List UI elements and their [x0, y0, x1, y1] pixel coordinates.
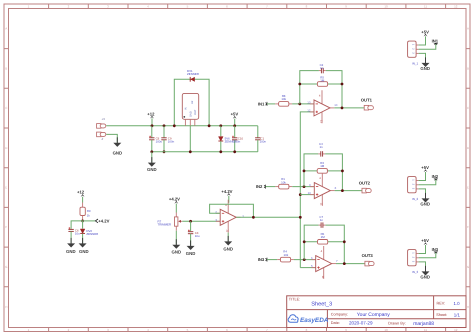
svg-text:10: 10 — [384, 5, 388, 9]
svg-text:marjan88: marjan88 — [413, 321, 434, 327]
svg-text:10k: 10k — [284, 253, 289, 257]
wire feedback loop stage 2 — [304, 154, 342, 191]
svg-text:GND: GND — [420, 66, 430, 71]
svg-text:1k: 1k — [87, 214, 91, 218]
svg-text:B: B — [5, 67, 7, 71]
svg-text:10u: 10u — [75, 232, 80, 236]
resistor R4 10k — [277, 259, 280, 261]
svg-text:10: 10 — [384, 328, 388, 332]
zener diode DV3 5V6 — [219, 124, 222, 127]
svg-text:E: E — [467, 186, 469, 190]
EasyEDA logo — [288, 315, 329, 324]
svg-text:1n: 1n — [320, 145, 324, 149]
wire feedback resistor branch stage 1 — [300, 83, 342, 85]
node +4.2V junction — [81, 220, 84, 223]
ground GND (conn3) — [422, 266, 430, 276]
svg-text:TITLE:: TITLE: — [289, 298, 300, 302]
svg-text:+4.2V: +4.2V — [98, 218, 109, 223]
svg-text:10: 10 — [308, 191, 312, 195]
wire node to C6 — [71, 221, 83, 229]
resistor R8 10k — [275, 103, 278, 105]
svg-text:E: E — [5, 186, 7, 190]
svg-text:13: 13 — [307, 100, 311, 104]
wire conn2 pin3 to GND — [419, 189, 426, 199]
svg-text:A: A — [467, 27, 469, 31]
connector J1 pin 1 — [97, 124, 106, 129]
svg-text:+5V: +5V — [421, 238, 429, 243]
svg-text:+12: +12 — [147, 111, 155, 116]
wire IN1 to R8 — [267, 103, 275, 105]
svg-text:+5V: +5V — [231, 112, 239, 117]
svg-text:IN_1: IN_1 — [412, 62, 419, 66]
capacitor C7 — [319, 222, 326, 227]
wire R1 to op-amp — [292, 186, 314, 188]
wire feedback resistor branch stage 2 — [304, 170, 342, 172]
zener diode DV2 — [82, 221, 84, 229]
svg-text:IN3: IN3 — [432, 247, 439, 252]
svg-text:Company:: Company: — [331, 313, 348, 317]
svg-text:+4.2V: +4.2V — [169, 197, 180, 202]
ground GND (C6) — [67, 238, 75, 248]
zener diode DV1 — [190, 77, 195, 82]
svg-text:REV:: REV: — [437, 302, 446, 306]
svg-text:R9: R9 — [87, 209, 91, 213]
regulator U2 — [182, 93, 198, 125]
svg-text:100n: 100n — [260, 140, 267, 144]
svg-text:IN_2: IN_2 — [412, 197, 419, 201]
svg-text:ZENNER: ZENNER — [187, 72, 199, 76]
wire bus to pin 5 — [300, 267, 315, 269]
svg-text:GND: GND — [223, 246, 233, 251]
wire feedback loop stage 1 — [300, 71, 342, 108]
ground GND (rail) — [151, 152, 153, 163]
svg-text:F: F — [467, 225, 469, 229]
svg-text:ZENNER: ZENNER — [86, 232, 98, 236]
svg-text:10k: 10k — [281, 180, 286, 184]
svg-text:OUT1: OUT1 — [361, 97, 373, 102]
svg-text:U2: U2 — [191, 100, 194, 104]
svg-text:IN3: IN3 — [258, 257, 265, 262]
svg-text:12: 12 — [307, 108, 311, 112]
svg-text:GND: GND — [147, 167, 157, 172]
wire buffer output — [236, 216, 300, 218]
wire conn3 pin1 to +5V — [419, 245, 426, 254]
svg-text:Sheet:: Sheet: — [436, 313, 447, 317]
svg-text:1/1: 1/1 — [454, 312, 461, 317]
svg-text:Drawn By:: Drawn By: — [388, 322, 406, 326]
net label IN2 (conn2) — [419, 179, 436, 185]
wire R4 to op-amp — [294, 259, 316, 261]
connector IN_1 — [408, 41, 419, 57]
svg-text:1M: 1M — [320, 164, 325, 168]
resistor R6 1M — [318, 240, 328, 245]
wire feedback resistor branch stage 3 — [304, 241, 344, 243]
svg-text:J1: J1 — [102, 117, 106, 121]
wire trimmer wiper to op-amp — [182, 220, 220, 222]
connector IN_2 — [408, 177, 419, 193]
wire ground rail — [152, 151, 258, 153]
svg-text:B: B — [467, 67, 469, 71]
wire conn1 pin3 to GND — [419, 53, 426, 63]
svg-text:A: A — [5, 27, 7, 31]
ground GND (buffer V-) — [227, 233, 229, 242]
capacitor C1 — [257, 126, 259, 138]
svg-text:F: F — [5, 225, 7, 229]
wire stage 2 output — [335, 190, 362, 192]
node junction C3 — [189, 220, 192, 223]
wire feedback loop stage 3 — [304, 225, 344, 264]
resistor R9 1k — [82, 203, 84, 208]
svg-text:Your Company: Your Company — [357, 312, 390, 318]
capacitor C4 — [318, 151, 325, 156]
wire IN3 to R4 — [267, 259, 277, 261]
title block texts — [289, 298, 461, 327]
net label IN1 (conn1) — [419, 43, 436, 49]
svg-text:2020-07-29: 2020-07-29 — [349, 320, 373, 325]
capacitor C8 — [151, 126, 153, 138]
svg-text:Date:: Date: — [331, 321, 340, 325]
net flag +4.2V — [83, 220, 96, 222]
op-amp U6 stage 3 — [311, 246, 336, 279]
svg-text:IN2: IN2 — [256, 184, 263, 189]
ground GND (C3) — [187, 240, 195, 250]
svg-text:EasyEDA: EasyEDA — [300, 317, 329, 324]
ground GND (conn2) — [422, 193, 430, 203]
title block — [287, 296, 466, 328]
svg-text:IN_3: IN_3 — [412, 270, 419, 274]
node junction ground rail left — [150, 150, 153, 153]
svg-text:GND: GND — [420, 202, 430, 207]
svg-text:IN2: IN2 — [432, 174, 439, 179]
op-amp U5 stage 2 — [310, 173, 335, 206]
resistor R5 1M — [317, 82, 327, 87]
wire stage 3 output — [336, 263, 365, 265]
wire feedback (buffer) — [210, 204, 254, 217]
svg-text:IN: IN — [184, 107, 187, 110]
connector J1 pin 2 — [97, 132, 106, 137]
op-amp U3 buffer — [216, 200, 241, 233]
ground GND (R7) — [175, 231, 177, 245]
svg-text:GND: GND — [172, 250, 182, 255]
svg-text:Sheet_3: Sheet_3 — [311, 301, 332, 308]
zener DV1 protection loop wire — [174, 79, 209, 126]
svg-text:OUT: OUT — [194, 109, 197, 115]
capacitor C3 10u — [190, 221, 192, 231]
svg-text:GND: GND — [420, 275, 430, 280]
svg-text:12: 12 — [454, 5, 458, 9]
node junction bus to pin 10 — [299, 193, 302, 196]
svg-text:+5V: +5V — [421, 165, 429, 170]
svg-text:11: 11 — [424, 5, 427, 9]
svg-text:IN1: IN1 — [432, 38, 439, 43]
op-amp U4 stage 1 — [310, 90, 335, 123]
wire IN2 to R1 — [266, 186, 276, 188]
wire conn3 pin3 to GND — [419, 262, 426, 272]
svg-text:100n: 100n — [234, 140, 241, 144]
wire conn1 pin1 to +5V — [419, 36, 426, 45]
svg-text:1n: 1n — [320, 66, 324, 70]
capacitor C10 — [233, 124, 236, 127]
wire stage 1 output — [334, 107, 364, 109]
svg-text:TRIMMER: TRIMMER — [158, 222, 172, 226]
svg-text:GND: GND — [113, 150, 123, 155]
resistor R3 1M — [317, 169, 327, 174]
svg-text:1M: 1M — [321, 235, 326, 239]
svg-text:H: H — [5, 305, 7, 309]
wire +4.2V reference bus — [300, 112, 314, 268]
resistor R1 10k — [275, 186, 278, 188]
wire regulator GND pin to ground rail — [189, 126, 191, 152]
svg-text:1.0: 1.0 — [454, 301, 461, 306]
ground GND (DV2) — [79, 238, 87, 248]
ground GND (J1) — [113, 137, 121, 147]
svg-text:10k: 10k — [281, 97, 286, 101]
trimmer R7 — [175, 213, 183, 231]
net label IN3 (conn3) — [419, 252, 436, 258]
svg-text:2: 2 — [101, 137, 104, 141]
ground GND (conn1) — [422, 57, 430, 67]
svg-text:1M: 1M — [320, 79, 325, 83]
svg-text:OUT3: OUT3 — [362, 253, 374, 258]
svg-text:+4.2V: +4.2V — [221, 189, 232, 194]
svg-text:H: H — [467, 305, 469, 309]
svg-text:OUT2: OUT2 — [359, 180, 371, 185]
svg-text:GND: GND — [79, 249, 89, 254]
svg-text:GND: GND — [186, 251, 196, 256]
svg-text:1n: 1n — [320, 218, 324, 222]
svg-text:10u: 10u — [195, 234, 200, 238]
svg-text:11: 11 — [424, 328, 427, 332]
node junction +12/C8 — [151, 124, 154, 127]
capacitor C9 — [163, 124, 166, 127]
connector IN_3 — [408, 250, 419, 266]
capacitor C2 — [319, 68, 326, 73]
svg-text:100n: 100n — [168, 139, 175, 143]
svg-text:12: 12 — [454, 328, 458, 332]
svg-text:+12: +12 — [77, 190, 85, 195]
svg-text:14: 14 — [334, 103, 338, 107]
svg-text:+5V: +5V — [421, 29, 429, 34]
wire bus to pin 10 — [300, 194, 314, 196]
svg-text:GND: GND — [189, 111, 192, 117]
svg-text:GND: GND — [66, 249, 76, 254]
svg-text:IN1: IN1 — [258, 101, 265, 106]
wire R8 to op-amp — [292, 103, 314, 105]
wire J1 pin2 to GND — [106, 134, 117, 142]
capacitor C6 10u — [68, 227, 73, 231]
wire +12 rail — [106, 125, 258, 127]
wire conn2 pin1 to +5V — [419, 172, 426, 181]
